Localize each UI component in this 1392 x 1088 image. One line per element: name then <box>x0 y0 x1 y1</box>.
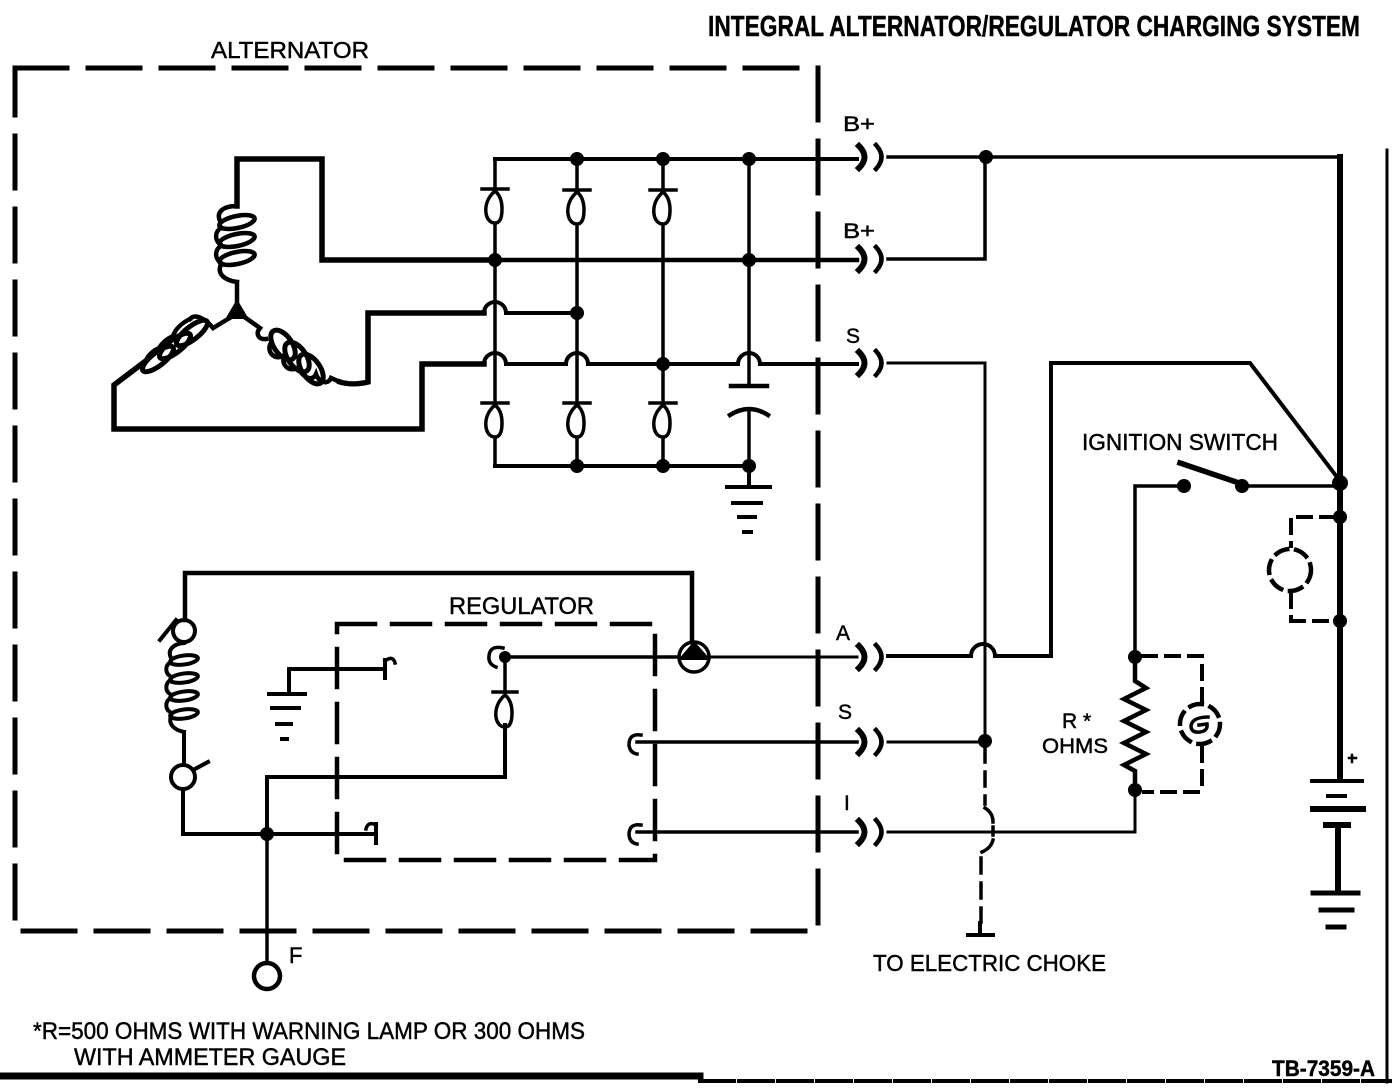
svg-text:R *: R * <box>1062 710 1091 733</box>
svg-text:OHMS: OHMS <box>1042 735 1108 758</box>
alternator enclosure (dashed box) <box>15 68 818 931</box>
brush (upper slip ring) <box>173 620 195 642</box>
indicator lamp on bus (dashed) <box>1333 510 1347 524</box>
diode D7 (regulator) <box>493 660 517 777</box>
wire phase 1 to rectifier column 1 <box>237 159 495 260</box>
terminal F (circle) <box>254 963 280 989</box>
node A (circled junction) <box>679 642 709 672</box>
wire upper contact to A node <box>509 655 679 659</box>
regulator upper contact with curl <box>499 651 511 663</box>
wire I line <box>637 830 857 834</box>
battery polarity mark <box>1349 755 1356 762</box>
ignition switch contacts <box>1177 479 1191 493</box>
rectifier negative bus <box>495 464 749 468</box>
choke lead end bar <box>968 923 993 935</box>
capacitor C1 branch <box>747 159 751 384</box>
svg-text:S: S <box>846 325 860 348</box>
brush (lower slip ring) <box>171 765 195 789</box>
diode D2 (upper col 2) <box>564 159 590 313</box>
battery <box>1312 779 1362 783</box>
connector I <box>859 821 865 843</box>
page border bottom <box>0 1073 700 1080</box>
wire field to F node <box>183 789 372 834</box>
stator neutral node <box>227 301 247 318</box>
ground (alternator) <box>747 466 751 485</box>
dashed box around warning lamp <box>1143 656 1202 700</box>
dashed lead to electric choke <box>983 748 987 804</box>
connector A <box>859 646 865 668</box>
svg-text:IGNITION SWITCH: IGNITION SWITCH <box>1082 429 1278 455</box>
B+ second line <box>495 258 857 263</box>
connector S2 <box>859 731 865 753</box>
regulator enclosure (dashed box) <box>337 624 655 860</box>
warning lamp (dashed circle with filament) <box>1180 704 1220 744</box>
svg-text:A: A <box>836 622 850 645</box>
wire A line to connector <box>709 656 857 659</box>
svg-text:S: S <box>838 701 852 724</box>
ignition switch lever <box>1180 463 1242 484</box>
svg-text:*R=500 OHMS WITH WARNING LAMP: *R=500 OHMS WITH WARNING LAMP OR 300 OHM… <box>33 1018 585 1045</box>
wire A to ignition switch (with hop) <box>888 363 1340 656</box>
I regulator terminal curl <box>629 825 641 844</box>
regulator moving contact <box>374 824 378 843</box>
connector B+ 1 <box>859 146 865 168</box>
svg-text:ALTERNATOR: ALTERNATOR <box>211 37 369 63</box>
connector B+ 2 <box>859 248 865 270</box>
main feed bus (right vertical) <box>1337 157 1343 779</box>
diode D5 (lower col 2) <box>564 313 590 466</box>
wire F node to regulator upper contact <box>267 725 505 834</box>
stator winding phase 3 (right) coil <box>243 316 340 382</box>
wire F terminal lead <box>265 834 269 962</box>
ground (battery) <box>1313 893 1358 927</box>
S regulator terminal curl <box>629 735 641 754</box>
svg-text:B+: B+ <box>843 220 875 243</box>
junction dots on B+ bus <box>570 152 584 166</box>
svg-text:I: I <box>844 792 850 815</box>
svg-text:INTEGRAL ALTERNATOR/REGULATOR: INTEGRAL ALTERNATOR/REGULATOR CHARGING S… <box>708 11 1360 43</box>
rotor field coil <box>166 643 184 765</box>
svg-text:TB-7359-A: TB-7359-A <box>1272 1056 1375 1081</box>
S stator tap line <box>484 353 857 364</box>
wire phase 3 to rectifier column 2 <box>340 313 484 384</box>
diode D3 (upper col 3) <box>650 159 676 364</box>
junction F node <box>260 827 274 841</box>
resistor R <box>1128 650 1142 664</box>
grounded contact arm <box>289 667 381 671</box>
stator winding phase 2 (left) coil <box>143 316 233 363</box>
svg-text:WITH AMMETER GAUGE: WITH AMMETER GAUGE <box>74 1044 346 1071</box>
svg-text:REGULATOR: REGULATOR <box>449 593 594 620</box>
wire S2 line <box>637 740 857 744</box>
ground (regulator) <box>287 669 291 692</box>
svg-text:B+: B+ <box>843 113 875 136</box>
wire phase 2 to S node <box>114 363 484 429</box>
junction bus/switch/A <box>1332 475 1348 491</box>
svg-text:TO ELECTRIC CHOKE: TO ELECTRIC CHOKE <box>873 950 1106 976</box>
stator winding phase 1 (top) coil <box>216 206 237 305</box>
connector S 1 <box>859 352 865 374</box>
B+ positive bus (top) <box>495 157 857 161</box>
diode D4 (lower col 1) <box>482 260 508 466</box>
wire switch to bus <box>1249 484 1338 488</box>
rotor field branch: top wire <box>185 573 692 642</box>
wire switch to resistor <box>1135 486 1177 650</box>
page border right <box>1386 150 1389 1082</box>
diode D6 (lower col 3) <box>650 364 676 466</box>
wire hop phase3 line over column 1 <box>484 302 506 313</box>
diode D1 (upper col 1) <box>482 159 508 260</box>
svg-text:F: F <box>289 943 302 968</box>
